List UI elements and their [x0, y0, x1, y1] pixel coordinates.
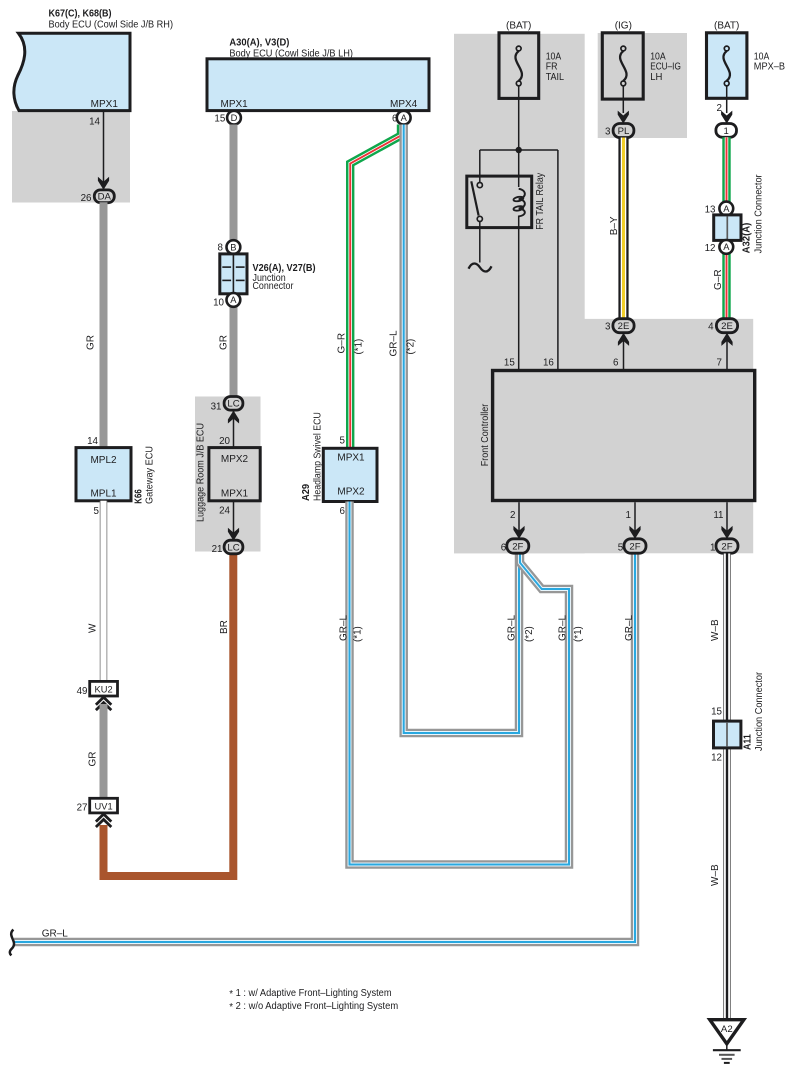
svg-text:GR–L: GR–L	[558, 614, 569, 641]
svg-text:21: 21	[212, 544, 223, 555]
title K67(C), K68(B)	[49, 9, 112, 20]
arrowhead up into LC	[228, 411, 239, 424]
svg-text:Gateway ECU: Gateway ECU	[144, 446, 155, 504]
svg-text:1: 1	[626, 510, 631, 521]
left edge break squiggle	[10, 930, 14, 956]
label GR-L column6	[624, 614, 635, 641]
pin 10 label (V26 A)	[213, 297, 224, 308]
label GR-L (column 3b)	[389, 330, 400, 357]
svg-text:10: 10	[213, 297, 224, 308]
svg-text:MPX2: MPX2	[221, 454, 249, 465]
svg-text:MPX–B: MPX–B	[754, 62, 785, 73]
svg-text:Luggage Room J/B ECU: Luggage Room J/B ECU	[196, 423, 207, 522]
svg-text:GR–L: GR–L	[338, 614, 349, 641]
pin 14 label (K67 MPX1)	[89, 117, 100, 128]
pin 1 label (FC bottom)	[626, 510, 631, 521]
label (*1) right of 2F-6	[573, 626, 584, 642]
pin 5 label (K66 MPL1)	[94, 506, 100, 517]
splice LC lower	[224, 540, 243, 554]
svg-text:TAIL: TAIL	[546, 72, 565, 83]
label 10A ECU-IG LH	[650, 51, 681, 83]
pin 4 label (2E right)	[708, 322, 714, 333]
pin 20 label (luggage MPX2)	[219, 436, 230, 447]
svg-text:Connector: Connector	[253, 281, 294, 292]
pin 6 label (A29 MPX2)	[340, 506, 346, 517]
svg-text:14: 14	[87, 436, 98, 447]
relay coil	[513, 189, 525, 217]
arrowhead into oval 1	[721, 111, 732, 124]
fuse ECU-IG element	[620, 46, 627, 86]
wire BR from UV1 to luggage room LC	[104, 552, 234, 876]
svg-text:GR: GR	[219, 335, 230, 350]
relay switch contacts	[471, 181, 482, 221]
arrowhead down into 2F-1	[721, 526, 732, 539]
svg-text:6: 6	[340, 506, 346, 517]
grey shading IG fuse column	[598, 33, 687, 138]
label A32(A) (rotated)	[742, 223, 753, 254]
label (*2) column3b top	[406, 339, 417, 355]
wire B-Y from PL to 2E	[618, 138, 628, 320]
pin 7 label (FC top)	[717, 358, 722, 369]
splice 2F-5	[624, 539, 646, 553]
svg-text:MPX4: MPX4	[390, 99, 418, 110]
pin 12 label (A11)	[711, 752, 722, 763]
svg-text:2 : w/o Adaptive Front–Lightin: 2 : w/o Adaptive Front–Lighting System	[236, 1001, 399, 1012]
pin 14 label (K66 MPL2)	[87, 436, 98, 447]
label W-B upper	[710, 619, 721, 641]
wire from MPX-B fuse down	[726, 86, 728, 113]
splice 2F-6	[507, 539, 529, 553]
svg-text:2F: 2F	[629, 541, 640, 552]
svg-text:MPX1: MPX1	[337, 453, 365, 464]
svg-text:UV1: UV1	[95, 802, 113, 812]
svg-text:W–B: W–B	[710, 864, 721, 886]
label GR-L lower left	[338, 614, 349, 641]
body ECU K67 box (torn left edge)	[14, 33, 130, 110]
svg-text:3: 3	[605, 126, 611, 137]
svg-text:1 : w/ Adaptive Front–Lighting: 1 : w/ Adaptive Front–Lighting System	[236, 988, 392, 999]
label Luggage Room J/B ECU (rotated)	[196, 423, 207, 522]
label BR	[219, 620, 230, 634]
pin A circle (A32 top)	[719, 202, 733, 216]
splice oval 1	[716, 124, 737, 138]
svg-text:27: 27	[77, 803, 88, 814]
note *1 adaptive front lighting	[229, 988, 391, 1000]
svg-text:A: A	[401, 113, 408, 123]
arrowhead down into 2F-6	[513, 526, 524, 539]
title A30(A), V3(D)	[229, 37, 289, 48]
wire from IG fuse to PL	[622, 86, 624, 113]
svg-text:(*1): (*1)	[354, 339, 365, 355]
ground A2 triangle	[710, 1020, 744, 1044]
svg-text:GR–L: GR–L	[507, 614, 518, 641]
svg-text:W–B: W–B	[710, 619, 721, 641]
svg-text:BR: BR	[219, 620, 230, 634]
junction connector A11 box	[714, 721, 741, 748]
splice 2E right	[716, 319, 737, 333]
double chevron below UV1	[96, 814, 111, 827]
pin 26 label (DA)	[81, 193, 92, 204]
svg-text:6: 6	[613, 358, 619, 369]
svg-text:DA: DA	[98, 192, 112, 203]
grey shading front controller area	[454, 319, 753, 553]
svg-text:A: A	[230, 295, 237, 305]
arrowhead into PL	[618, 111, 629, 124]
svg-text:W: W	[88, 623, 99, 633]
svg-text:16: 16	[543, 358, 554, 369]
pin 1 label (2F-1)	[710, 543, 715, 554]
wire 2E to front controller pin 6	[623, 333, 625, 371]
wire junction to relay coil	[518, 150, 520, 187]
svg-text:Body ECU (Cowl Side J/B RH): Body ECU (Cowl Side J/B RH)	[49, 19, 174, 30]
label A29 (rotated)	[301, 484, 312, 501]
svg-text:2F: 2F	[512, 541, 523, 552]
splice DA	[94, 190, 114, 203]
grey shading top-left (behind DA splice)	[12, 111, 130, 203]
label (IG) fuse2	[615, 21, 632, 32]
svg-text:(BAT): (BAT)	[714, 21, 739, 32]
fuse MPX-B box	[707, 33, 747, 99]
label W column1	[88, 623, 99, 633]
arrowhead down into 2F-5	[629, 526, 640, 539]
svg-text:8: 8	[218, 243, 224, 254]
svg-text:20: 20	[219, 436, 230, 447]
wire FC pin 1 to 2F-5	[634, 502, 636, 539]
pin A circle (V26 bottom)	[227, 293, 241, 307]
svg-text:24: 24	[219, 505, 230, 516]
svg-text:LH: LH	[650, 72, 662, 83]
svg-text:GR–L: GR–L	[389, 330, 400, 357]
wire relay switch to open symbol	[479, 222, 481, 263]
label FR TAIL Relay (rotated)	[535, 173, 546, 230]
wire junction horizontal	[480, 149, 558, 151]
label (*2) below 2F-6	[524, 626, 535, 642]
svg-text:*: *	[229, 989, 233, 1000]
subtitle Body ECU (Cowl Side J/B RH)	[49, 19, 174, 30]
svg-text:4: 4	[708, 322, 714, 333]
wire GR from D to junction connector V26	[230, 125, 238, 243]
wire FC pin 2 to 2F-6	[518, 502, 520, 539]
arrowhead up into 2E right	[721, 333, 732, 346]
svg-text:3: 3	[605, 322, 611, 333]
fuse MPX-B element	[723, 46, 730, 86]
svg-text:A30(A), V3(D): A30(A), V3(D)	[229, 37, 289, 48]
svg-text:12: 12	[711, 752, 722, 763]
connector KU2 box	[90, 681, 118, 696]
label Junction Connector A11 (rotated)	[754, 671, 765, 751]
fuse FR TAIL box	[499, 33, 539, 99]
label GR column1 lower	[88, 752, 99, 767]
svg-text:14: 14	[89, 117, 100, 128]
label K66 (rotated)	[134, 489, 145, 504]
svg-text:5: 5	[94, 506, 100, 517]
label GR-L right of 2F-6	[558, 614, 569, 641]
svg-text:MPX2: MPX2	[337, 486, 365, 497]
svg-text:LC: LC	[227, 399, 239, 410]
pin B circle (V26)	[227, 240, 241, 254]
wire G-R from oval 1 to A32	[722, 137, 730, 202]
pin A circle (A32 bottom)	[719, 240, 733, 254]
grey shading right main column (BAT fuse / relay)	[454, 34, 585, 554]
ground stem	[726, 1044, 728, 1050]
relay FR TAIL box	[467, 176, 532, 228]
junction node dot	[516, 147, 522, 153]
label GR-L below 2F-6	[507, 614, 518, 641]
label Junction Connector A32 (rotated)	[754, 174, 765, 254]
svg-text:A: A	[723, 242, 730, 252]
svg-text:26: 26	[81, 193, 92, 204]
svg-text:GR: GR	[88, 752, 99, 767]
label (*1) lower left	[353, 626, 364, 642]
pin 16 label (FC top)	[543, 358, 554, 369]
svg-text:GR: GR	[86, 335, 97, 350]
svg-text:(IG): (IG)	[615, 21, 632, 32]
label G-R upper right	[713, 269, 724, 290]
svg-text:G–R: G–R	[713, 269, 724, 290]
svg-text:PL: PL	[618, 126, 630, 137]
svg-text:Junction Connector: Junction Connector	[754, 174, 765, 254]
svg-text:(*1): (*1)	[573, 626, 584, 642]
pin 21 label (LC lower)	[212, 544, 223, 555]
svg-text:MPX1: MPX1	[91, 99, 119, 110]
label Headlamp Swivel ECU (rotated)	[312, 412, 323, 501]
label Junction (V26)	[253, 273, 286, 284]
wire GR-L from 2F-5 to left edge	[14, 554, 635, 943]
pin 24 label (luggage MPX1)	[219, 505, 230, 516]
ground hatch lines	[713, 1050, 741, 1063]
label 10A FR TAIL	[546, 51, 565, 83]
pin 6 label (A30 MPX4)	[392, 113, 398, 124]
svg-text:15: 15	[711, 707, 722, 718]
svg-text:MPX1: MPX1	[221, 489, 249, 500]
label 10A MPX-B	[754, 51, 785, 72]
pin 15 label (A30 MPX1)	[214, 113, 225, 124]
label GR column1 upper	[86, 335, 97, 350]
label G-R (column 3)	[337, 333, 348, 354]
pin 15 label (A11)	[711, 707, 722, 718]
wire GR-L from A30 MPX4 straight down (w/o AFS)	[404, 125, 519, 734]
wire junction right branch to front controller pin 16	[557, 150, 559, 371]
wire W from K66 to KU2	[100, 501, 108, 682]
svg-text:D: D	[231, 113, 238, 123]
svg-text:12: 12	[705, 243, 716, 254]
svg-text:*: *	[229, 1002, 233, 1013]
pin 3 label (PL)	[605, 126, 611, 137]
pin 31 label (LC upper)	[211, 401, 222, 412]
pin 8 label (V26 B)	[218, 243, 224, 254]
label Front Controller (rotated)	[480, 403, 491, 466]
wire junction to relay switch	[479, 150, 481, 182]
pin 6 label (FC top)	[613, 358, 619, 369]
splice 2F-1	[716, 539, 738, 553]
wire GR through V26	[230, 242, 238, 398]
wire from luggage MPX1 pin 24 down to LC	[233, 501, 235, 541]
svg-text:A29: A29	[301, 484, 312, 501]
svg-text:MPL2: MPL2	[90, 455, 117, 466]
svg-text:(*2): (*2)	[406, 339, 417, 355]
svg-text:KU2: KU2	[95, 685, 113, 695]
svg-text:1: 1	[724, 126, 729, 137]
svg-text:Junction Connector: Junction Connector	[754, 671, 765, 751]
label V26(A), V27(B)	[253, 263, 316, 274]
arrowhead down into LC lower	[228, 528, 239, 541]
label Gateway ECU (rotated)	[144, 446, 155, 504]
label A11 (rotated)	[743, 734, 754, 750]
pin 5 label (2F-5)	[618, 543, 624, 554]
wire W-B from 2F-1 to ground A2	[723, 554, 731, 1020]
splice 2E left	[613, 319, 634, 333]
pin 5 label (A29 MPX1)	[340, 436, 346, 447]
wire from luggage MPX2 pin 20 up to LC	[233, 410, 235, 447]
svg-text:31: 31	[211, 401, 222, 412]
svg-text:B: B	[230, 242, 236, 252]
fuse FR TAIL element	[515, 46, 522, 86]
junction connector A32 box	[714, 215, 741, 241]
svg-text:MPX1: MPX1	[221, 99, 249, 110]
label W-B lower	[710, 864, 721, 886]
luggage room J/B ECU box	[209, 448, 260, 501]
svg-text:2F: 2F	[721, 541, 732, 552]
svg-text:(*1): (*1)	[353, 626, 364, 642]
label B-Y	[609, 216, 620, 235]
body ECU A30 box	[207, 59, 429, 111]
svg-text:1: 1	[710, 543, 715, 554]
note *2 adaptive front lighting	[229, 1001, 398, 1013]
svg-text:GR–L: GR–L	[624, 614, 635, 641]
label GR column2 upper	[219, 335, 230, 350]
gateway ECU K66 box	[76, 448, 131, 501]
wire from K67 pin 14 to splice DA	[103, 111, 105, 190]
pin 15 label (FC top)	[504, 358, 515, 369]
svg-text:6: 6	[392, 113, 398, 124]
svg-text:GR–L: GR–L	[42, 929, 69, 940]
label (*1) column3 top	[354, 339, 365, 355]
wire GR-L from A29 MPX2 to front controller 2F (w/ AFS)	[350, 502, 570, 865]
junction connector V26 box	[220, 254, 247, 294]
splice PL	[613, 124, 634, 138]
pin 11 label (FC bottom)	[713, 510, 723, 521]
svg-text:MPL1: MPL1	[90, 489, 117, 500]
pin 2 label (FC bottom)	[510, 510, 515, 521]
arrowhead into DA	[98, 177, 109, 190]
pin 6 label (2F-6)	[501, 543, 507, 554]
svg-text:Headlamp Swivel ECU: Headlamp Swivel ECU	[312, 412, 323, 501]
svg-text:G–R: G–R	[337, 333, 348, 354]
wire G-R from A30 MPX4 to A29 MPX1	[350, 125, 401, 449]
wire GR from KU2 to UV1	[100, 704, 108, 798]
svg-text:5: 5	[340, 436, 346, 447]
grey shading luggage room J/B ECU	[195, 397, 261, 552]
svg-text:2: 2	[510, 510, 515, 521]
label (BAT) fuse3	[714, 21, 739, 32]
svg-text:A2: A2	[721, 1024, 733, 1035]
splice LC upper	[224, 397, 243, 411]
pin D circle (A30)	[227, 111, 241, 125]
svg-text:(BAT): (BAT)	[506, 21, 531, 32]
svg-text:2E: 2E	[721, 321, 733, 332]
pin 49 label (KU2)	[77, 686, 88, 697]
open circuit squiggle below relay	[469, 264, 492, 272]
svg-text:A32(A): A32(A)	[742, 223, 753, 254]
pin 12 label (A32)	[705, 243, 716, 254]
connector UV1 box	[90, 798, 118, 813]
svg-text:A11: A11	[743, 734, 754, 750]
svg-text:15: 15	[214, 113, 225, 124]
svg-text:B–Y: B–Y	[609, 216, 620, 235]
svg-text:K67(C), K68(B): K67(C), K68(B)	[49, 9, 112, 20]
wire GR from DA to gateway ECU	[100, 202, 108, 447]
svg-text:A: A	[723, 204, 730, 214]
wire G-R through A32	[722, 202, 730, 319]
pin 13 label (A32)	[705, 204, 716, 215]
svg-text:(*2): (*2)	[524, 626, 535, 642]
wire relay coil to front controller pin 15	[518, 216, 520, 371]
svg-text:2E: 2E	[618, 321, 630, 332]
svg-text:7: 7	[717, 358, 722, 369]
subtitle Body ECU (Cowl Side J/B LH)	[229, 48, 353, 59]
front controller box	[493, 371, 755, 501]
pin 2 label (MPX-B)	[717, 103, 722, 114]
headlamp swivel ECU A29 box	[323, 448, 377, 501]
wire 2E right to front controller pin 7	[726, 333, 728, 371]
pin A circle (A30 MPX4)	[397, 111, 411, 125]
svg-text:Front Controller: Front Controller	[480, 403, 491, 466]
label Connector (V26)	[253, 281, 294, 292]
svg-text:LC: LC	[227, 542, 239, 553]
svg-text:FR TAIL Relay: FR TAIL Relay	[535, 173, 546, 230]
fuse ECU-IG box	[602, 33, 643, 99]
double chevron below KU2	[96, 697, 111, 710]
svg-text:49: 49	[77, 686, 88, 697]
label (BAT) fuse1	[506, 21, 531, 32]
pin 27 label (UV1)	[77, 803, 88, 814]
wire from FR TAIL fuse to junction	[518, 86, 520, 150]
svg-text:11: 11	[713, 510, 723, 521]
arrowhead up into 2E left	[618, 333, 629, 346]
svg-text:K66: K66	[134, 489, 145, 504]
label GR-L long wire	[42, 929, 69, 940]
wire FC pin 11 to 2F-1	[726, 502, 728, 539]
svg-text:15: 15	[504, 358, 515, 369]
pin 3 label (2E left)	[605, 322, 611, 333]
